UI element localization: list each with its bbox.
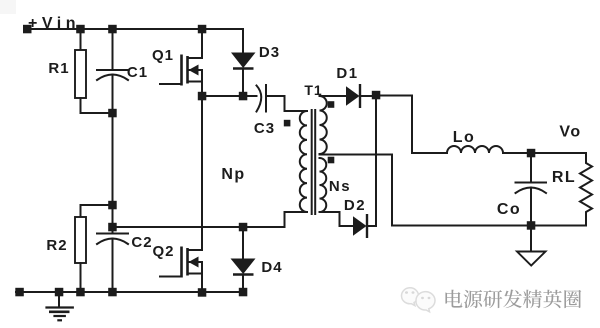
wire switch node vertical [201,96,203,250]
node C2 top [108,223,117,232]
resistor RL [580,153,592,226]
node rectifier output [372,91,381,100]
capacitor C1 [97,29,128,113]
node C2 bottom [108,288,117,297]
svg-text:R2: R2 [46,237,67,254]
svg-text:Co: Co [497,201,521,218]
terminal +Vin [23,25,32,34]
node C1 bottom [108,109,117,118]
diode D1 [346,84,360,108]
wire secondary top to D1 [320,95,347,97]
svg-text:D4: D4 [261,259,282,276]
capacitor C3 [257,85,267,112]
wire mid node to primary bottom [243,212,307,227]
polarity dot secondary mid [328,157,335,164]
wire bottom rail [16,291,246,293]
svg-text:Vo: Vo [559,124,581,141]
resistor R2 [75,205,86,292]
wire center tap return [320,155,393,226]
wire switch node [202,95,257,97]
node output bottom [527,221,536,230]
wire secondary bottom to D2 [320,212,354,226]
wire rectifier node to filter [380,96,447,154]
watermark text [445,290,581,309]
node output top [527,149,536,158]
node D3 cathode [239,92,248,101]
transistor Q2 [160,247,202,293]
polarity dot primary [284,120,291,127]
node D4 cathode [239,288,248,297]
diode D2 [353,214,367,238]
svg-text:C2: C2 [131,234,152,251]
node D4 anode [239,223,248,232]
wire D2 cathode to node [367,225,376,227]
node Q1 drain rail [198,25,207,34]
node Q2 source [198,288,207,297]
svg-text:R1: R1 [48,60,69,77]
svg-text:RL: RL [552,169,576,186]
capacitor Co [516,153,547,226]
svg-text:Lo: Lo [453,129,476,146]
svg-text:C3: C3 [254,120,275,137]
wire top rail [24,28,243,30]
watermark logo [402,288,435,312]
wire rectifier node down to D2 [375,99,377,226]
wire C3 to primary top [266,96,307,111]
svg-text:Q2: Q2 [152,243,174,260]
diode D4 [231,227,256,292]
transformer secondary Ns top half [320,96,327,154]
resistor R1 [75,29,86,113]
ground earth [45,292,74,320]
capacitor C2 [97,234,128,293]
node R2 bottom [76,288,85,297]
node R2 tap [108,201,117,210]
svg-text:D3: D3 [259,44,280,61]
transistor Q1 [160,29,202,96]
wire R1 bottom to C1 node [81,112,113,114]
node Q1 source [198,92,207,101]
transformer secondary Ns bottom half [320,158,327,212]
wire output bottom rail [392,225,586,227]
ground output [517,226,546,266]
diode D3 [231,29,256,96]
node C1 top [108,25,117,34]
node ground tap [55,288,64,297]
svg-text:D2: D2 [344,197,366,214]
polarity dot secondary top [328,101,335,108]
svg-text:C1: C1 [127,64,148,81]
svg-text:Ns: Ns [329,178,351,195]
transformer T1 primary winding Np [300,111,307,212]
wire bridge mid node [113,226,244,228]
wire D1 to rectifier node [360,95,372,97]
wire Lo to output [503,152,586,154]
inductor Lo [447,146,503,153]
wire mid vertical C1 to C2 [112,113,114,234]
svg-text:D1: D1 [336,65,358,82]
terminal bottom left [15,288,23,297]
node R1 top [76,25,85,34]
wire tap to R2 [81,204,113,206]
svg-text:Q1: Q1 [152,47,174,64]
transformer core [312,110,316,214]
svg-text:Np: Np [221,166,245,183]
